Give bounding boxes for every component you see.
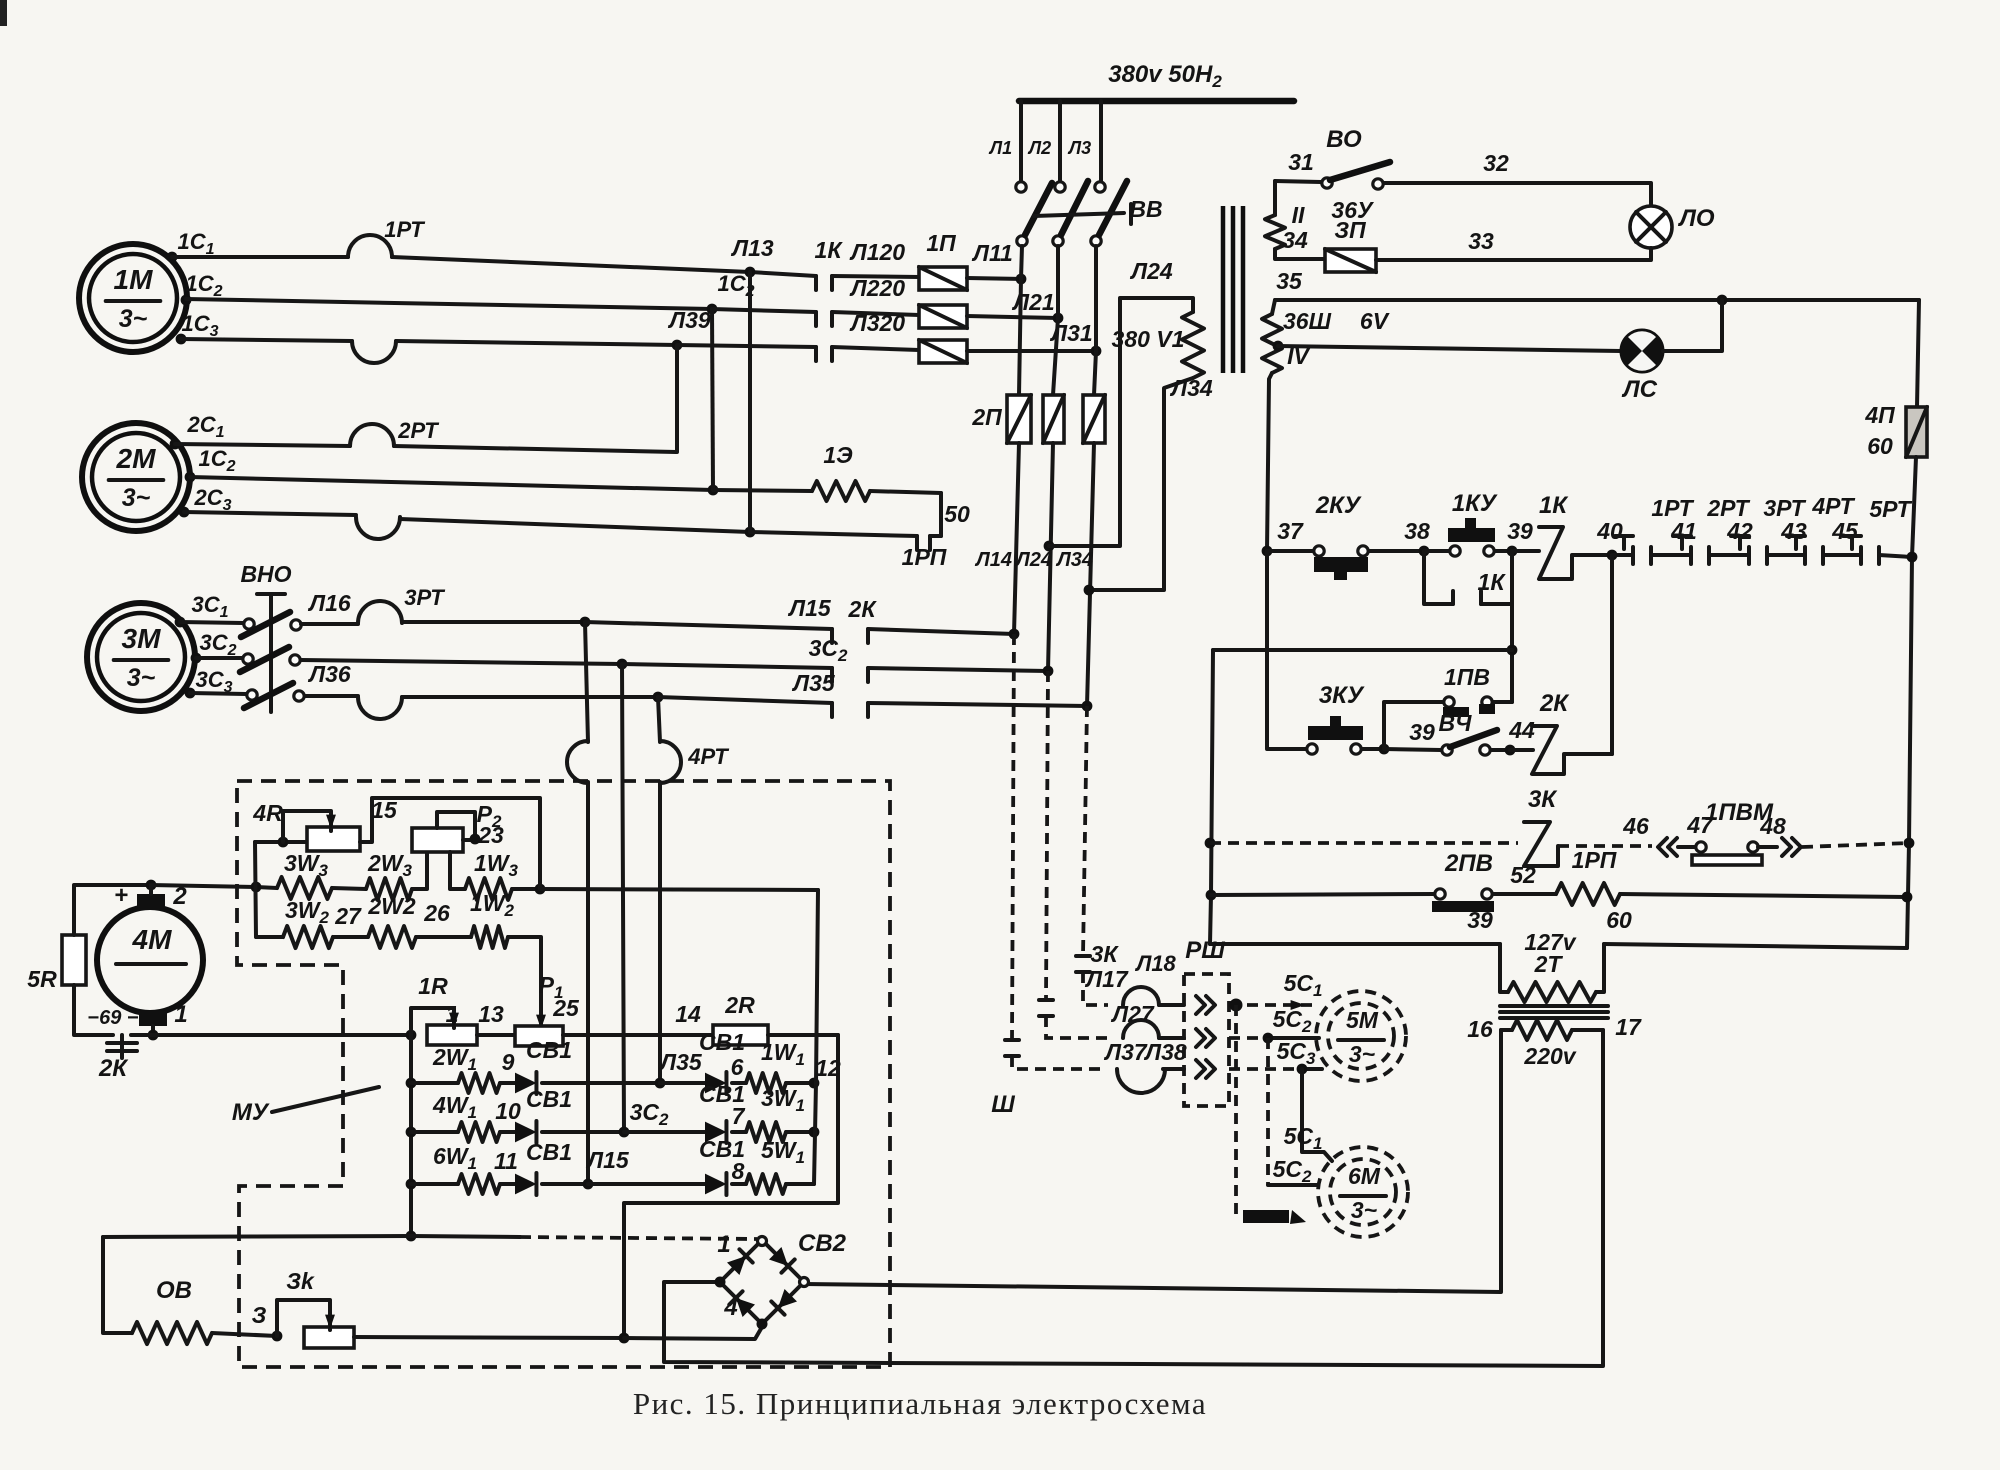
wire to right rail (1879, 555, 1912, 557)
wire Л35 row to contact (658, 670, 836, 703)
wire 3C2 row to contact (622, 635, 848, 668)
wire Л15 vertical into МУ (585, 622, 588, 1184)
svg-text:1РП: 1РП (1572, 847, 1617, 873)
svg-text:Зk: Зk (286, 1268, 315, 1294)
coil 3К (1524, 786, 1558, 866)
limit switch 1ПВМ (1658, 799, 1801, 865)
svg-text:1К: 1К (815, 237, 844, 263)
contact 2ПВ (1432, 850, 1536, 912)
wire pole1 down to fuses (1019, 246, 1022, 395)
wire 1W2 to Р1 wiper (508, 937, 563, 1031)
node 5С3 (1297, 1064, 1308, 1075)
wire dashed to right rail (1802, 843, 1909, 847)
node 5С3 smudge (1243, 1210, 1306, 1224)
overload heater 3РТ lower bump (358, 697, 402, 719)
contact 1К row2 (gap) (816, 312, 832, 326)
node motor 4M plus (146, 880, 157, 891)
node 3C1 (175, 592, 229, 627)
wire 38 down to aux contact (1424, 551, 1453, 604)
thermal contact 5РТ (1843, 496, 1913, 564)
node branch 1ПВ (1379, 744, 1390, 755)
potentiometer 4R (252, 800, 360, 851)
wire segment (1709, 553, 1749, 557)
svg-text:Л17: Л17 (1084, 966, 1129, 992)
svg-text:СВ1: СВ1 (526, 1037, 572, 1063)
wire rail to 3КУ (1267, 551, 1306, 749)
svg-text:43: 43 (1780, 518, 1807, 544)
overload heater 2РТ lower bump (356, 517, 400, 539)
svg-text:2М: 2М (116, 443, 157, 474)
svg-text:Л11: Л11 (971, 240, 1013, 266)
node Л15 branch (580, 617, 591, 628)
node bottom left column (406, 1231, 417, 1242)
node 38 (1404, 518, 1430, 556)
winding 1W2 (416, 890, 515, 948)
svg-text:Л1: Л1 (988, 138, 1012, 158)
winding 1W1 (732, 1039, 814, 1093)
svg-text:6V: 6V (1360, 308, 1390, 334)
svg-text:Л2: Л2 (1027, 138, 1051, 158)
fuse 2П c (1083, 395, 1105, 443)
winding 2W2 (333, 893, 450, 948)
coil 1К (1512, 492, 1569, 579)
diode СВ1 b (500, 1086, 624, 1143)
wire Л220 to fuse (832, 275, 919, 315)
coil 2К (1510, 690, 1570, 774)
wire Л36 row with overload (305, 661, 658, 697)
wire 15 link (360, 797, 540, 889)
wire 3C2 row (301, 660, 622, 664)
wire Л24 dashed down (1046, 671, 1108, 1038)
svg-text:40: 40 (1596, 518, 1623, 544)
wire Л15 row to 2К contact (585, 595, 832, 629)
bridge diode bottom-right (771, 1289, 797, 1315)
svg-text:27: 27 (334, 903, 362, 929)
svg-text:3КУ: 3КУ (1319, 682, 1365, 709)
wire 13 (477, 1001, 515, 1035)
svg-text:36Ш: 36Ш (1283, 308, 1332, 334)
button 1КУ (start) (1424, 490, 1498, 556)
wire 39 vertical (1510, 551, 1514, 702)
wire 1C1 row to contact 1К (750, 272, 816, 276)
cable coupling row2 (1110, 1001, 1184, 1038)
node row2 left (406, 1127, 417, 1138)
svg-text:6: 6 (731, 1054, 744, 1080)
svg-text:39: 39 (1409, 719, 1435, 745)
wire 40 to thermal contacts (1612, 553, 1633, 557)
wire segment (1651, 553, 1691, 557)
resistor 1РП (1556, 847, 1620, 905)
node 3W3 left (251, 882, 262, 893)
node Л24 tap (1044, 541, 1055, 552)
node 40 (1596, 518, 1623, 560)
transformer secondary 36Ш (1262, 268, 1332, 373)
resistor 2R (713, 992, 768, 1045)
winding 3W1 (732, 1085, 814, 1142)
wire Л21 (967, 289, 1058, 318)
svg-text:5РТ: 5РТ (1869, 496, 1912, 522)
wire row 1035 from 4M (153, 1033, 411, 1037)
motor 1M (79, 244, 187, 352)
wire 5С2 row (1229, 1006, 1319, 1038)
wire 5С3 row (1229, 1038, 1322, 1069)
winding 3W3 (277, 850, 332, 899)
Зk wiper link (277, 1300, 335, 1336)
caption (633, 1386, 1207, 1421)
svg-text:4R: 4R (252, 800, 283, 826)
svg-text:44: 44 (1508, 717, 1535, 743)
wire ОВ to З (212, 1333, 277, 1336)
wire 39 row (1210, 907, 1500, 944)
contact 2К row2 (gap) (832, 668, 868, 682)
wire link Л13 to 2C3 (vertical) (748, 272, 752, 532)
node 4R left (278, 837, 289, 848)
svg-text:60: 60 (1606, 907, 1632, 933)
resistor 5R (27, 935, 86, 992)
svg-text:50: 50 (944, 501, 970, 527)
wire Л34 from fuse to node (1055, 443, 1094, 706)
svg-text:38: 38 (1404, 518, 1430, 544)
lamp ЛО (1630, 205, 1715, 248)
node Л34 tap (1084, 585, 1095, 596)
svg-text:1: 1 (717, 1231, 730, 1258)
svg-text:1РП: 1РП (902, 544, 947, 570)
node 35/6V junction (1717, 295, 1728, 306)
wire 37 to 2КУ (1267, 549, 1313, 553)
svg-text:3~: 3~ (1349, 1041, 1375, 1067)
node Л31 junction (1091, 346, 1102, 357)
node row3 left (406, 1179, 417, 1190)
node Л35 in МУ (655, 1049, 703, 1088)
wire link Л39 to 2C1 (vertical) (675, 345, 679, 452)
svg-text:220v: 220v (1523, 1043, 1576, 1069)
brush 4M bottom (87, 1001, 187, 1035)
wire 1РП to rail (1620, 894, 1907, 897)
svg-text:1К: 1К (1539, 492, 1569, 519)
node Зk row (619, 1333, 630, 1344)
node 39 (1507, 518, 1533, 556)
node rail 895 (1206, 890, 1217, 901)
svg-text:12: 12 (815, 1055, 841, 1081)
fuse 4П (1864, 402, 1927, 459)
svg-text:Рис. 15. Принципиальная эле: Рис. 15. Принципиальная электросхема (633, 1386, 1207, 1421)
svg-text:1М: 1М (114, 264, 154, 295)
wire 1C1 row with overload 1РТ (172, 257, 750, 272)
svg-text:3К: 3К (1091, 941, 1120, 967)
wire 1ПВ to vertical (1493, 700, 1512, 704)
thermal contact 4РТ (1787, 493, 1859, 564)
transformer 2Т core (1500, 1006, 1608, 1018)
svg-text:7: 7 (732, 1103, 746, 1129)
wire 2R column down (624, 1035, 838, 1338)
svg-text:ЛС: ЛС (1621, 376, 1657, 403)
wire dashed to coil 3К (1210, 841, 1518, 845)
node Л13 (730, 235, 774, 277)
diode СВ1 c (500, 1139, 588, 1195)
wire Л14 dashed down with contact 3К (1012, 634, 1104, 1069)
svg-text:6М: 6М (1348, 1163, 1381, 1189)
node 1C3 on 1M (176, 311, 219, 344)
wire 5С1 row (1229, 970, 1322, 1010)
winding ОВ (132, 1277, 212, 1344)
wire 2C3 row with overload (184, 512, 750, 532)
bridge diode top-right (769, 1247, 795, 1273)
wire 4R column (255, 842, 256, 937)
wire long row 650 (1213, 648, 1512, 652)
svg-text:ВЧ: ВЧ (1439, 710, 1473, 736)
wire 2R to corner (768, 1033, 838, 1037)
svg-text:52: 52 (1510, 862, 1536, 888)
switch ВНО frame (240, 561, 291, 712)
svg-text:3М: 3М (122, 623, 162, 654)
wire left rail 650 down (1210, 650, 1213, 944)
brush 4M top (114, 882, 187, 910)
node 2C3 (179, 485, 232, 517)
svg-text:5М: 5М (1346, 1007, 1379, 1033)
node Л35 branch (653, 692, 664, 703)
svg-text:Л120: Л120 (849, 239, 905, 265)
fuse 2П a (971, 395, 1031, 443)
transformer 2Т primary 127v (1500, 929, 1604, 1002)
svg-text:1К: 1К (1478, 569, 1507, 595)
wire Р2 to 1W3 (450, 852, 465, 889)
svg-text:13: 13 (478, 1001, 504, 1027)
svg-text:15: 15 (371, 797, 398, 823)
svg-text:2К: 2К (848, 596, 878, 622)
svg-text:2W2: 2W2 (367, 893, 416, 919)
contact 2К row1 (gap) (832, 596, 877, 643)
svg-text:1: 1 (174, 1001, 187, 1028)
svg-text:32: 32 (1483, 150, 1509, 176)
svg-text:11: 11 (494, 1148, 518, 1174)
svg-text:33: 33 (1468, 228, 1494, 254)
contact 1ПВ (1443, 664, 1495, 717)
svg-text:39: 39 (1467, 907, 1493, 933)
svg-text:25: 25 (552, 995, 580, 1021)
svg-text:45: 45 (1831, 518, 1859, 544)
wire 5С1 down to 6М (1284, 1069, 1332, 1161)
wire left column 1 (409, 1035, 413, 1236)
wire 1C2 row to contact (712, 309, 816, 312)
overload 4РТ (side bumps) (567, 741, 729, 783)
wire 3КУ to branch (1362, 747, 1384, 751)
wire link 1С2 vertical (712, 309, 713, 490)
transformer 1Тр core (1223, 206, 1243, 373)
svg-text:5R: 5R (27, 966, 57, 992)
rectifier bridge СВ2 (715, 1230, 847, 1330)
potentiometer Р1 (515, 995, 580, 1046)
overload heater 2РТ bump (350, 418, 439, 446)
wire 1C3 row with overload (181, 339, 677, 345)
svg-text:Л39: Л39 (667, 307, 711, 333)
svg-text:ЛО: ЛО (1677, 205, 1714, 232)
svg-text:МУ: МУ (232, 1099, 270, 1126)
svg-text:З: З (252, 1302, 267, 1328)
thermal contact 3РТ (1731, 495, 1807, 564)
wire segment (1767, 553, 1805, 557)
supply bus 380v 50Hz (1019, 61, 1294, 101)
wire to bridge bottom (624, 1327, 762, 1339)
svg-text:2ПВ: 2ПВ (1444, 850, 1493, 877)
svg-text:2РТ: 2РТ (397, 418, 439, 443)
МУ label with pointer (232, 1087, 379, 1126)
node 5С2 (1263, 1033, 1274, 1044)
wire Л24 tap to resistor 380V1 (1049, 258, 1193, 546)
node right rail row1 (1907, 552, 1918, 563)
contact 2К near 4M (98, 1035, 137, 1082)
fuse ЗП (1325, 197, 1376, 272)
node 1C1 on 1M (167, 229, 215, 262)
motor 2M (82, 423, 190, 531)
wire segment (1823, 553, 1861, 557)
svg-text:1Э: 1Э (823, 442, 853, 468)
cable coupling row1 (1123, 951, 1184, 1005)
svg-text:39: 39 (1507, 518, 1533, 544)
wire 5R bottom to node (74, 985, 113, 1035)
wire main row 885 (256, 887, 277, 888)
fuse 1П row2 (919, 305, 967, 328)
wire right column 12 (814, 890, 818, 1184)
wire Л16 row with overload 3РТ (301, 590, 585, 624)
plug РШ arrows row3 (1196, 1060, 1215, 1078)
button 3КУ (1307, 682, 1365, 754)
wire row3 to contact (677, 345, 816, 347)
resistor 380V1 (1112, 312, 1204, 378)
wire Л34 from resistor (1089, 375, 1213, 590)
switch ВНО pole1 (180, 612, 301, 637)
node motor 4M minus (148, 1030, 159, 1041)
wire 1C2 row (186, 299, 712, 309)
svg-text:1R: 1R (418, 973, 448, 999)
wire ВЧ to 44 (1491, 748, 1510, 752)
svg-text:4РТ: 4РТ (1811, 493, 1855, 519)
svg-text:3~: 3~ (1351, 1197, 1377, 1223)
wire 6V to lamp ЛС (1278, 308, 1621, 351)
wire right rail lower (1907, 457, 1916, 948)
diode СВ1 e (624, 1081, 746, 1143)
bridge diode bottom-left (729, 1291, 755, 1317)
wire Л24 from fuse to node (1014, 443, 1053, 671)
plug РШ arrows row2 (1196, 1029, 1215, 1047)
node 3С2 in МУ (619, 1099, 669, 1137)
switch ВВ pole3 (1091, 181, 1127, 246)
thermal contact 2РТ (1673, 495, 1753, 564)
svg-text:10: 10 (495, 1098, 521, 1124)
svg-text:Л34: Л34 (1169, 375, 1213, 401)
svg-text:2КУ: 2КУ (1315, 492, 1362, 519)
contact 1К auxiliary (1453, 569, 1512, 604)
svg-text:37: 37 (1277, 518, 1304, 544)
wire coil 1К to 40 (1563, 555, 1612, 579)
wire 14 (563, 1001, 713, 1035)
winding 5W1 (732, 1137, 814, 1194)
label Ш (991, 1091, 1015, 1118)
wire 5С3 down dashed (1234, 1005, 1238, 1214)
svg-text:СВ1: СВ1 (526, 1086, 572, 1112)
svg-text:3РТ: 3РТ (404, 585, 445, 610)
wire row1 to Л14 node (868, 629, 1014, 634)
svg-text:Л24: Л24 (1129, 258, 1173, 284)
svg-text:Л220: Л220 (849, 275, 905, 301)
wire lamp ЛС to 35 (1663, 300, 1722, 351)
switch ВВ pole1 (1016, 182, 1052, 246)
wire drop Л1 (988, 101, 1021, 181)
contact gap on Л34 wire (1076, 956, 1090, 972)
node 36Ш tap (1273, 341, 1284, 352)
node 23 (470, 834, 481, 845)
wire 33 lamp to fuse (1376, 228, 1651, 260)
wire 1W3 to node (512, 887, 540, 891)
node 3C2 branch (617, 659, 628, 670)
node З (252, 1302, 283, 1341)
wire Л31 (967, 320, 1096, 351)
wire Л320 to fuse (832, 310, 919, 350)
svg-text:−69 −: −69 − (87, 1007, 138, 1029)
wire 2КУ to 38 (1369, 549, 1424, 553)
fuse 1П row3 (919, 340, 967, 363)
potentiometer Зk (286, 1268, 354, 1348)
node 44 (1505, 717, 1535, 755)
fuse 2П b (1043, 395, 1064, 443)
svg-text:34: 34 (1282, 227, 1308, 253)
node Л39 (667, 307, 711, 350)
svg-text:2П: 2П (971, 404, 1002, 430)
svg-text:Ш: Ш (991, 1091, 1015, 1118)
wire node row to bridge (103, 1236, 757, 1239)
wire row3 to Л34 node (868, 703, 1087, 706)
node Л15 in МУ (583, 1147, 630, 1189)
wire 2К to node (131, 1033, 153, 1037)
wire drop Л3 (1067, 101, 1101, 181)
bridge diode top-left (727, 1249, 753, 1275)
svg-text:1КУ: 1КУ (1452, 490, 1498, 517)
switch ВНО pole2 (196, 647, 300, 672)
svg-text:Л24: Л24 (1014, 549, 1052, 571)
motor 6М (1318, 1147, 1408, 1237)
svg-text:Л21: Л21 (1011, 289, 1054, 315)
node Л24 row junction (1043, 666, 1054, 677)
svg-text:ОВ: ОВ (156, 1277, 192, 1304)
svg-text:Л27: Л27 (1110, 1001, 1155, 1027)
node rail 843 (1205, 838, 1216, 849)
svg-text:СВ1: СВ1 (699, 1029, 745, 1055)
node Л14 row junction (1009, 629, 1020, 640)
svg-text:2К: 2К (98, 1055, 129, 1082)
winding 4W1 (411, 1092, 521, 1142)
svg-text:ВО: ВО (1326, 126, 1362, 153)
contact 1РП (gap 50) (750, 501, 970, 570)
svg-text:Л14: Л14 (974, 549, 1012, 571)
svg-text:Л34: Л34 (1055, 549, 1093, 571)
svg-text:2: 2 (172, 883, 187, 910)
wire 1C2 row of 2M (190, 477, 713, 490)
wire 32 to lamp (1384, 150, 1651, 206)
wire 3С2 vertical into МУ (622, 664, 624, 1132)
node rail 843 right (1904, 838, 1915, 849)
svg-text:380 V1: 380 V1 (1112, 326, 1185, 352)
node 1С2 mid junction (707, 271, 755, 314)
wire 3КУ row to ВЧ (1384, 749, 1441, 750)
transformer primary II-34 (1265, 181, 1325, 259)
node 37 (1262, 518, 1304, 556)
svg-text:3~: 3~ (119, 305, 148, 333)
svg-text:СВ2: СВ2 (798, 1230, 847, 1257)
overload heater 3РТ bump (358, 585, 445, 623)
node 1C2 on 1M (181, 271, 223, 305)
svg-text:3К: 3К (1528, 786, 1558, 813)
motor 3M (87, 603, 195, 711)
diode СВ1 a (500, 1037, 660, 1094)
